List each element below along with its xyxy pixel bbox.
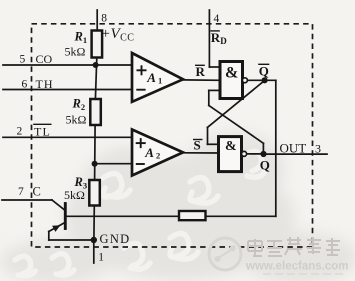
svg-text:R: R	[196, 64, 206, 79]
svg-text:1: 1	[158, 76, 162, 86]
svg-text:CO: CO	[36, 52, 53, 66]
svg-text:5kΩ: 5kΩ	[64, 188, 85, 202]
svg-text:3: 3	[315, 141, 321, 155]
svg-text:2: 2	[17, 126, 23, 138]
svg-text:Q: Q	[259, 64, 269, 79]
svg-text:TH: TH	[36, 77, 54, 91]
svg-text:A: A	[144, 145, 154, 160]
svg-text:2: 2	[156, 150, 160, 160]
svg-text:8: 8	[101, 13, 107, 25]
svg-text:C: C	[33, 185, 41, 199]
svg-text:OUT: OUT	[280, 141, 307, 156]
svg-text:&: &	[225, 139, 237, 154]
svg-text:5: 5	[20, 54, 26, 66]
svg-text:6: 6	[22, 79, 28, 91]
svg-text:www.elecfans.com: www.elecfans.com	[245, 261, 348, 273]
svg-text:1: 1	[98, 252, 104, 264]
svg-text:5kΩ: 5kΩ	[66, 113, 87, 127]
svg-text:Q: Q	[260, 157, 270, 172]
svg-text:&: &	[225, 65, 238, 82]
svg-text:TL: TL	[34, 125, 51, 139]
svg-text:A: A	[146, 70, 156, 85]
svg-text:7: 7	[18, 186, 24, 198]
svg-text:GND: GND	[100, 232, 131, 246]
svg-text:4: 4	[214, 13, 220, 25]
svg-text:5kΩ: 5kΩ	[65, 45, 86, 59]
